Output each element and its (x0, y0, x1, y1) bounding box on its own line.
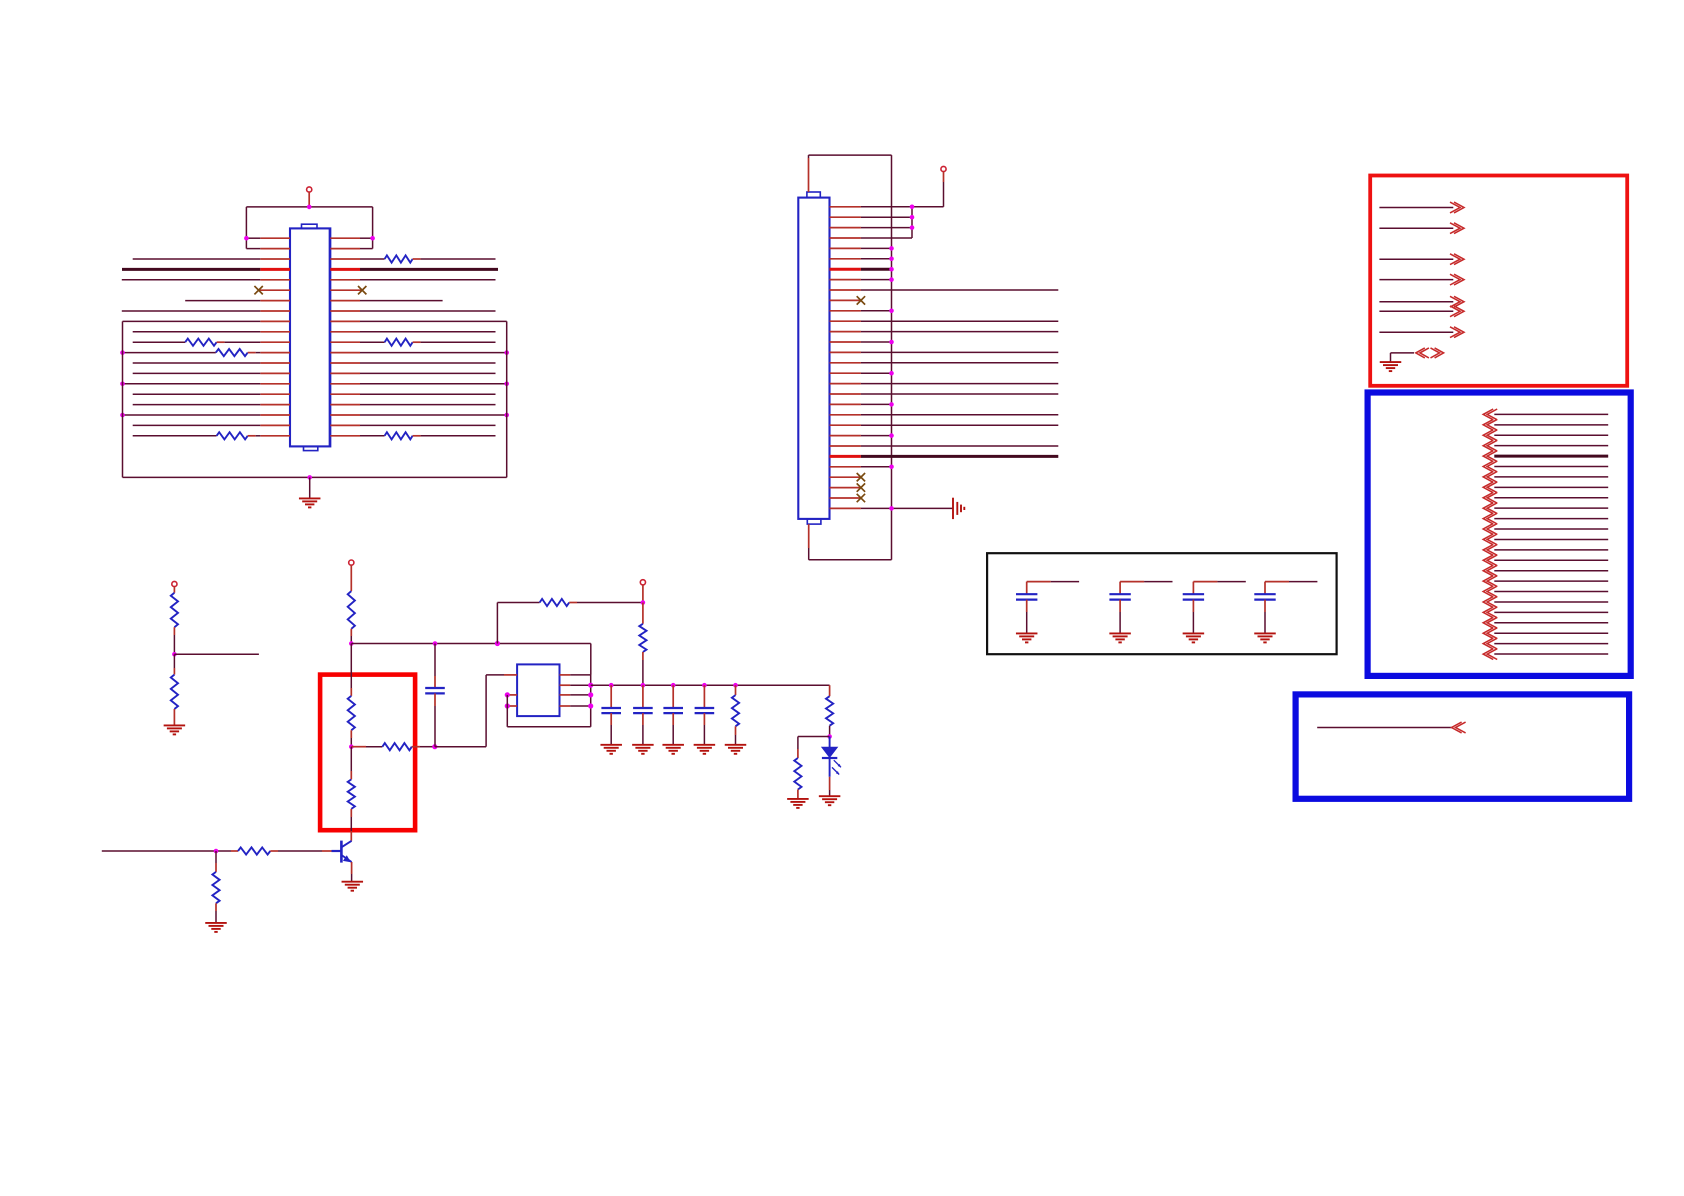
wire U1 left pin 12 (120, 349, 290, 356)
wire U1 outer loop box (123, 321, 507, 477)
junction rail (671, 683, 676, 688)
wire port in 3 (1483, 430, 1608, 441)
connector J1 body (798, 192, 829, 524)
ground LED D1 (819, 795, 841, 797)
wire J1 pin 27 (830, 473, 866, 481)
ground C11 (1016, 633, 1037, 642)
wire J1 pin 10 (830, 296, 866, 304)
wire Q1 emitter to gnd (351, 862, 353, 882)
wire port out 6 (1379, 306, 1464, 317)
wire port in single (1317, 722, 1465, 733)
wire port out 2 (1379, 223, 1464, 234)
ground C13 (1183, 633, 1205, 642)
wire J1 pin 9 (830, 289, 1059, 291)
wire J1 pin 7 (830, 267, 894, 272)
wire U3 left pin 3 (505, 703, 517, 708)
LED D1 (822, 737, 837, 797)
resistor R10 (rail drop) (639, 603, 646, 686)
wire port in 2 (1483, 419, 1608, 430)
capacitor C13 (1183, 582, 1246, 634)
ground C14 (1254, 633, 1276, 642)
wire U1 left pin 7 (185, 300, 290, 302)
resistor R2 (171, 654, 178, 725)
wire base net (102, 850, 238, 852)
resistor R9 (feedback top) (540, 599, 643, 606)
junction rail (641, 683, 646, 688)
wire port in 8 (1483, 482, 1608, 493)
ground left divider (164, 724, 186, 726)
wire J1 pin 25 (830, 455, 1059, 458)
junction rail (702, 683, 707, 688)
wire U1 right pin 13 (330, 362, 495, 364)
wire J1 pin 13 (830, 331, 1059, 333)
wire J1 pin 3 (830, 225, 915, 230)
wire J1 pin 15 (830, 351, 1059, 353)
wire J1 power to pins 1-4 (912, 207, 944, 238)
wire port in 20 (1483, 607, 1608, 618)
junction left divider (172, 652, 177, 657)
wire U1 right pin 19 (330, 424, 495, 426)
wire U1 left pin 17 (133, 404, 290, 406)
wire U1 right pin 12 (330, 350, 509, 355)
ground C2 (600, 744, 622, 746)
wire U1 right pin 7 (330, 300, 442, 302)
wire port in 4 (1483, 440, 1608, 451)
ground C4 (662, 744, 684, 746)
wire port in 7 (1483, 472, 1608, 483)
wire feedback up (497, 603, 539, 644)
wire port in 23 (1483, 638, 1608, 649)
resistor R3 (348, 591, 355, 643)
wire J1 pin 20 (830, 402, 894, 407)
power symbol node A (349, 560, 354, 591)
wire port in 16 (1483, 565, 1608, 576)
capacitor C11 (1016, 582, 1079, 634)
wire J1 pin 4 (830, 237, 913, 239)
wire port out 7 (1379, 327, 1464, 338)
wire U1 left pin 2 (246, 248, 290, 250)
wire U1 left pin 19 (133, 424, 290, 426)
wire J1 bottom loop (809, 524, 892, 560)
capacitor C14 (1254, 582, 1317, 634)
wire J1 vertical bus (891, 155, 893, 560)
wire R5 to U3 (435, 675, 504, 747)
wire J1 pin 21 (830, 414, 1059, 416)
wire U3 right pin 2 (560, 683, 594, 688)
wire J1 pin 17 (830, 371, 894, 376)
wire J1 pin 11 (830, 309, 894, 314)
wire J1 pin 26 (830, 465, 894, 470)
wire main rail (591, 684, 830, 686)
capacitor C3 (633, 685, 653, 745)
wire port out 1 (1379, 202, 1464, 213)
capacitor C5 (695, 685, 715, 745)
wire U1 left pin 15 (120, 382, 290, 387)
wire U1 top feedback box (246, 207, 372, 249)
ground J1 pin 30 (sideways) (953, 498, 964, 519)
wire U1 right pin 16 (330, 393, 495, 395)
wire port in 13 (1483, 534, 1608, 545)
wire U1 left pin 1 (244, 236, 290, 241)
power symbol left divider (172, 581, 177, 592)
wire U1 right pin 14 (330, 372, 495, 374)
wire U1 left pin 13 (133, 362, 290, 364)
junction U1 ground node (307, 475, 312, 480)
LED D1 emission arrows (832, 760, 841, 774)
wire U1 right pin 2 (330, 248, 372, 250)
wire U1 left pin 18 (120, 413, 290, 418)
wire J1 pin 22 (830, 424, 1059, 426)
wire port in 6 (1483, 461, 1608, 472)
wire port in 18 (1483, 586, 1608, 597)
capacitor C1 (425, 644, 445, 747)
wire U1 left pin 3 (133, 258, 290, 260)
wire U1 left pin 11 (133, 339, 290, 346)
resistor R6 (in box lower) (348, 747, 355, 841)
wire J1 pin 1 (830, 205, 915, 210)
wire J1 pin 2 (830, 215, 915, 220)
wire U1 right pin 3 (330, 255, 495, 262)
wire port in 19 (1483, 597, 1608, 608)
wire U3 right pin 4 (560, 703, 594, 708)
power symbol rail (640, 580, 645, 603)
wire U3 left pin 1 (504, 674, 517, 676)
wire node A rail (351, 644, 591, 675)
wire J1 pin 6 (830, 257, 894, 262)
wire port out 5 (1379, 296, 1464, 307)
wire J1 pin 16 (830, 362, 1059, 364)
regulator U3 body (517, 664, 559, 716)
wire node A down (350, 644, 352, 696)
junction divider mid (349, 744, 354, 749)
resistor R11 (rail to gnd) (732, 685, 739, 745)
wire port in 15 (1483, 555, 1608, 566)
wire port in 10 (1483, 503, 1608, 514)
resistor R12 (LED series) (826, 685, 833, 736)
ground C5 (694, 744, 716, 746)
wire U1 left pin 4 (122, 268, 290, 271)
wire port in 12 (1483, 524, 1608, 535)
junction LED node (827, 734, 832, 739)
wire J1 top loop (809, 155, 892, 192)
wire U1 right pin 17 (330, 404, 495, 406)
highlight box (red) (320, 675, 415, 831)
ground C12 (1109, 633, 1131, 642)
wire J1 pin 12 (830, 320, 1059, 322)
wire U1 right pin 9 (330, 320, 506, 322)
power symbol VCC U1 (307, 187, 312, 207)
port box (blue, large) (1368, 393, 1631, 676)
junction rail (609, 683, 614, 688)
wire U1 right pin 4 (330, 268, 498, 271)
wire U1 right pin 18 (330, 413, 509, 418)
wire U1 right pin 10 (330, 331, 495, 333)
wire J1 pin 19 (830, 393, 1059, 395)
wire U1 left pin 14 (133, 372, 290, 374)
wire port in 24 (1483, 649, 1608, 660)
wire port in 14 (1483, 545, 1608, 556)
wire J1 pin 5 (830, 246, 894, 251)
wire U3 right pin 1 (560, 674, 591, 676)
junction node A feedback (495, 641, 500, 646)
wire J1 pin 23 (830, 433, 894, 438)
wire port in 17 (1483, 576, 1608, 587)
wire R1 to node (173, 627, 175, 654)
wire U1 right pin 20 (330, 432, 495, 439)
wire U1 right pin 6 (330, 286, 366, 294)
resistor R4 (in box upper) (348, 696, 355, 747)
wire U1 right pin 5 (330, 279, 495, 281)
wire port in 9 (1483, 492, 1608, 503)
wire LED node left (798, 737, 830, 759)
capacitor C12 (1109, 582, 1172, 634)
wire U1 right pin 8 (330, 310, 495, 312)
wire U1 left pin 6 (254, 286, 290, 294)
wire U1 left pin 5 (122, 279, 290, 281)
IC U1 body (290, 224, 330, 450)
junction base divider (214, 849, 219, 854)
resistor R1 (171, 593, 178, 627)
wire U1 left pin 9 (123, 320, 291, 322)
capacitor C4 (663, 685, 683, 745)
wire port in 11 (1483, 513, 1608, 524)
capacitor C2 (601, 685, 621, 745)
wire U1 right pin 11 (330, 339, 495, 346)
junction R5 out (432, 744, 437, 749)
junction node A cap (433, 641, 438, 646)
wire U1 right pin 15 (330, 382, 509, 387)
wire port out 3 (1379, 254, 1464, 265)
wire U1 left pin 20 (133, 432, 290, 439)
ground U1 (299, 477, 321, 507)
wire port in 22 (1483, 628, 1608, 639)
wire J1 pin 18 (830, 383, 1059, 385)
wire J1 pin 24 (830, 445, 1059, 447)
junction U1 top power (307, 205, 312, 210)
wire U1 left pin 8 (122, 310, 290, 312)
wire U3 left pin 2 (505, 692, 517, 697)
wire U1 right pin 1 (330, 236, 375, 241)
port box (blue, small) (1296, 694, 1630, 798)
wire U1 left pin 10 (133, 331, 290, 333)
wire J1 pin 14 (830, 340, 894, 345)
junction power/feedback (641, 600, 646, 605)
junction rail (733, 683, 738, 688)
resistor R13 (parallel) (794, 758, 801, 799)
wire divider tap (174, 653, 259, 655)
wire port out 4 (1379, 274, 1464, 285)
ground C3 (632, 744, 654, 746)
ground Q1 (342, 881, 364, 883)
ground R8 (205, 922, 227, 924)
decoupling box (black) (987, 553, 1337, 654)
port box (red) (1370, 176, 1627, 386)
wire U3 bracket (507, 675, 590, 727)
ground R13 (787, 798, 809, 800)
wire J1 pin 8 (830, 277, 894, 282)
wire J1 pin 30 (830, 506, 954, 511)
junction node A (349, 641, 354, 646)
ground R11 (725, 744, 747, 746)
ground port in red box (1380, 348, 1444, 371)
wire port in 5 (1483, 451, 1608, 462)
wire port in 21 (1483, 617, 1608, 628)
power symbol VCC J1 (941, 166, 946, 206)
resistor R7 (base series) (238, 847, 332, 854)
wire J1 pin 28 (830, 483, 866, 491)
wire U3 right pin 3 (560, 692, 594, 697)
wire port in 1 (1483, 409, 1608, 420)
transistor Q1 (332, 841, 352, 863)
resistor R5 (in box horizontal) (351, 743, 435, 750)
resistor R8 (base pulldown) (212, 851, 219, 923)
wire U1 left pin 16 (133, 393, 290, 395)
wire J1 pin 29 (830, 494, 866, 502)
